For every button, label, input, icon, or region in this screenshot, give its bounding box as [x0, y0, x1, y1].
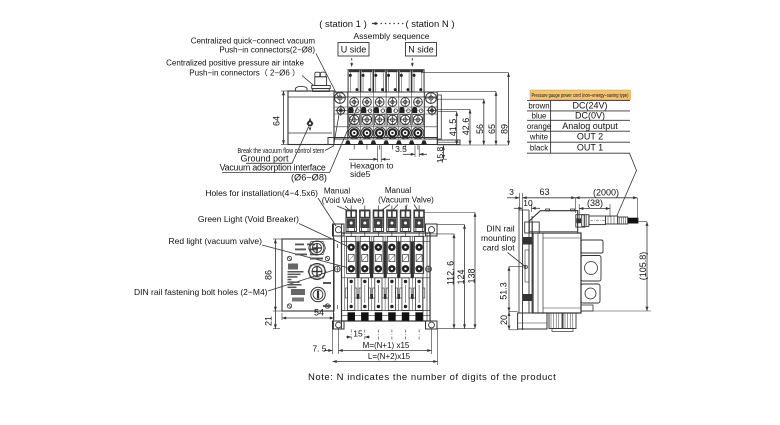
svg-text:56: 56	[475, 124, 485, 134]
svg-text:L=(N+2)x15: L=(N+2)x15	[368, 352, 411, 361]
svg-text:Manual: Manual	[324, 187, 350, 196]
svg-text:20: 20	[499, 315, 509, 325]
svg-text:10: 10	[523, 198, 533, 208]
svg-text:blue: blue	[532, 112, 547, 121]
svg-text:M=(N+1) x15: M=(N+1) x15	[363, 341, 410, 350]
svg-text:(Vacuum Valve): (Vacuum Valve)	[378, 196, 434, 205]
svg-text:Centralized quick−connect vacu: Centralized quick−connect vacuum	[191, 37, 316, 46]
svg-text:124: 124	[456, 269, 466, 284]
svg-text:Holes for installation(4−4.5x6: Holes for installation(4−4.5x6)	[205, 188, 318, 198]
svg-text:Pressure gauge power cord (non: Pressure gauge power cord (non−energy−sa…	[532, 93, 629, 99]
svg-text:Note: N indicates the number o: Note: N indicates the number of digits o…	[308, 372, 556, 383]
svg-text:brown: brown	[528, 102, 549, 111]
svg-text:Push−in connectors（ 2−Ø6 ）: Push−in connectors（ 2−Ø6 ）	[189, 69, 300, 78]
svg-text:DC(24V): DC(24V)	[572, 101, 607, 111]
svg-text:(Void Valve): (Void Valve)	[322, 196, 365, 205]
svg-text:7. 5: 7. 5	[312, 344, 326, 354]
svg-text:DC(0V): DC(0V)	[575, 111, 605, 121]
svg-text:21: 21	[264, 316, 274, 326]
svg-text:card slot: card slot	[482, 243, 515, 253]
svg-text:Push−in connectors(2−Ø8): Push−in connectors(2−Ø8)	[219, 46, 315, 55]
svg-text:mounting: mounting	[481, 233, 516, 243]
svg-text:DIN rail fastening bolt holes: DIN rail fastening bolt holes (2−M4)	[134, 287, 268, 297]
svg-text:OUT 2: OUT 2	[577, 132, 603, 142]
svg-text:15: 15	[353, 329, 363, 339]
svg-text:63: 63	[539, 187, 549, 197]
svg-text:Analog output: Analog output	[562, 121, 618, 131]
svg-text:Assembly sequence: Assembly sequence	[353, 31, 429, 41]
svg-text:N side: N side	[408, 45, 434, 55]
svg-text:DIN rail: DIN rail	[486, 224, 514, 234]
svg-text:42.6: 42.6	[461, 118, 471, 136]
svg-text:Manual: Manual	[385, 186, 411, 195]
svg-text:orange: orange	[527, 122, 551, 131]
svg-text:U side: U side	[341, 45, 367, 55]
svg-text:41.5: 41.5	[448, 119, 458, 137]
svg-text:89: 89	[500, 124, 510, 134]
svg-text:Centralized positive pressure: Centralized positive pressure air intake	[166, 59, 304, 68]
svg-text:Red light (vacuum valve): Red light (vacuum valve)	[168, 236, 262, 246]
svg-text:138: 138	[467, 268, 477, 283]
svg-text:112. 6: 112. 6	[445, 261, 455, 285]
svg-text:(Ø6−Ø8): (Ø6−Ø8)	[291, 173, 327, 183]
svg-text:64: 64	[272, 116, 282, 126]
svg-text:3.5: 3.5	[395, 144, 407, 154]
svg-text:3: 3	[509, 187, 514, 197]
svg-text:51.3: 51.3	[498, 282, 508, 300]
svg-text:Vacuum adsorption interface: Vacuum adsorption interface	[220, 163, 326, 173]
svg-text:(2000): (2000)	[593, 188, 619, 198]
svg-text:white: white	[529, 133, 548, 142]
svg-text:( station N ): ( station N )	[405, 19, 454, 30]
svg-text:black: black	[530, 144, 548, 153]
svg-text:(38): (38)	[587, 198, 603, 208]
svg-text:OUT 1: OUT 1	[577, 143, 603, 153]
svg-text:15.8: 15.8	[435, 146, 445, 163]
svg-text:Green Light (Void Breaker): Green Light (Void Breaker)	[198, 214, 299, 224]
svg-text:(105.8): (105.8)	[638, 252, 648, 281]
svg-text:86: 86	[264, 270, 274, 280]
svg-text:side5: side5	[350, 169, 371, 179]
svg-text:( station 1 ): ( station 1 )	[319, 19, 367, 30]
svg-text:54: 54	[314, 308, 324, 318]
svg-text:65: 65	[487, 124, 497, 134]
